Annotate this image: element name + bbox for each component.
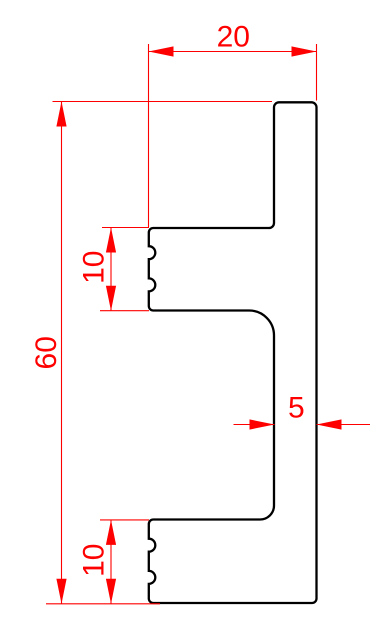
svg-text:10: 10: [78, 544, 111, 577]
svg-text:60: 60: [30, 336, 63, 369]
arrow 10l top: [106, 520, 116, 545]
leader right: [317, 424, 371, 426]
dim line: [61, 102, 63, 604]
arrow 10u bottom: [106, 286, 116, 311]
dim line: [110, 228, 112, 311]
dim line: [110, 520, 112, 604]
svg-text:10: 10: [78, 251, 111, 284]
arrow 60 bottom: [56, 579, 66, 604]
leader left: [234, 424, 275, 426]
dimension 10 (upper): [100, 228, 149, 311]
dimension 60 (left): [46, 102, 272, 604]
ext line bottom: [46, 603, 160, 605]
arrow 20 left: [149, 46, 174, 56]
arrow 5 right: [317, 419, 342, 429]
ext line left: [148, 44, 150, 227]
arrow 60 top: [56, 102, 66, 127]
arrow 5 left: [250, 419, 275, 429]
ext line top: [102, 227, 149, 229]
arrow 10l bottom: [106, 579, 116, 604]
dimension 20 (top): [149, 44, 317, 227]
svg-text:5: 5: [288, 391, 305, 424]
ext line top: [100, 519, 149, 521]
arrow 10u top: [106, 228, 116, 253]
svg-text:20: 20: [217, 21, 250, 54]
arrow 20 right: [292, 46, 317, 56]
dimension 5 (middle): [234, 424, 371, 426]
dim line: [149, 51, 317, 53]
ext line top: [53, 101, 273, 103]
ext line bottom: [100, 310, 149, 312]
dimension 10 (lower): [100, 520, 149, 604]
profile outline: [149, 102, 317, 603]
ext line right: [316, 44, 318, 101]
